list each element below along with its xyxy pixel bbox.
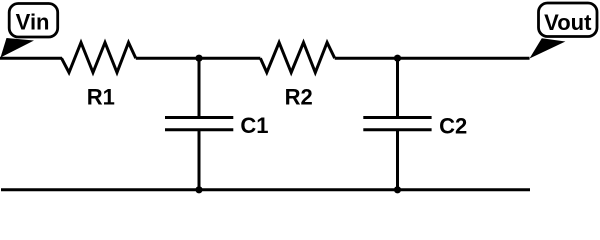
svg-text:R2: R2 [285, 85, 313, 110]
wire C2 to ground rail [396, 130, 399, 190]
node A junction dot [195, 55, 202, 62]
wire node B to C2 [396, 58, 399, 117]
wire C1 to ground rail [198, 130, 201, 190]
label C1 [240, 113, 268, 138]
junction dot C2-ground [394, 186, 401, 193]
svg-text:C1: C1 [240, 113, 268, 138]
wire R1 to R2 [136, 57, 261, 60]
net flag Vout [530, 3, 598, 59]
capacitor C1 [165, 118, 233, 130]
label R1 [87, 85, 115, 110]
ground rail wire [1, 188, 530, 191]
capacitor C2 [363, 118, 431, 130]
svg-text:Vin: Vin [16, 10, 50, 35]
label R2 [285, 85, 313, 110]
net flag Vin [1, 4, 58, 58]
junction dot C1-ground [195, 186, 202, 193]
wire node A to C1 [198, 58, 201, 117]
node B junction dot [394, 55, 401, 62]
wire input segment [0, 57, 62, 60]
resistor R1 [62, 43, 136, 73]
svg-text:R1: R1 [87, 85, 115, 110]
label C2 [439, 114, 467, 139]
resistor R2 [260, 43, 334, 73]
svg-text:Vout: Vout [544, 10, 592, 35]
svg-text:C2: C2 [439, 114, 467, 139]
wire R2 to output [335, 57, 530, 60]
